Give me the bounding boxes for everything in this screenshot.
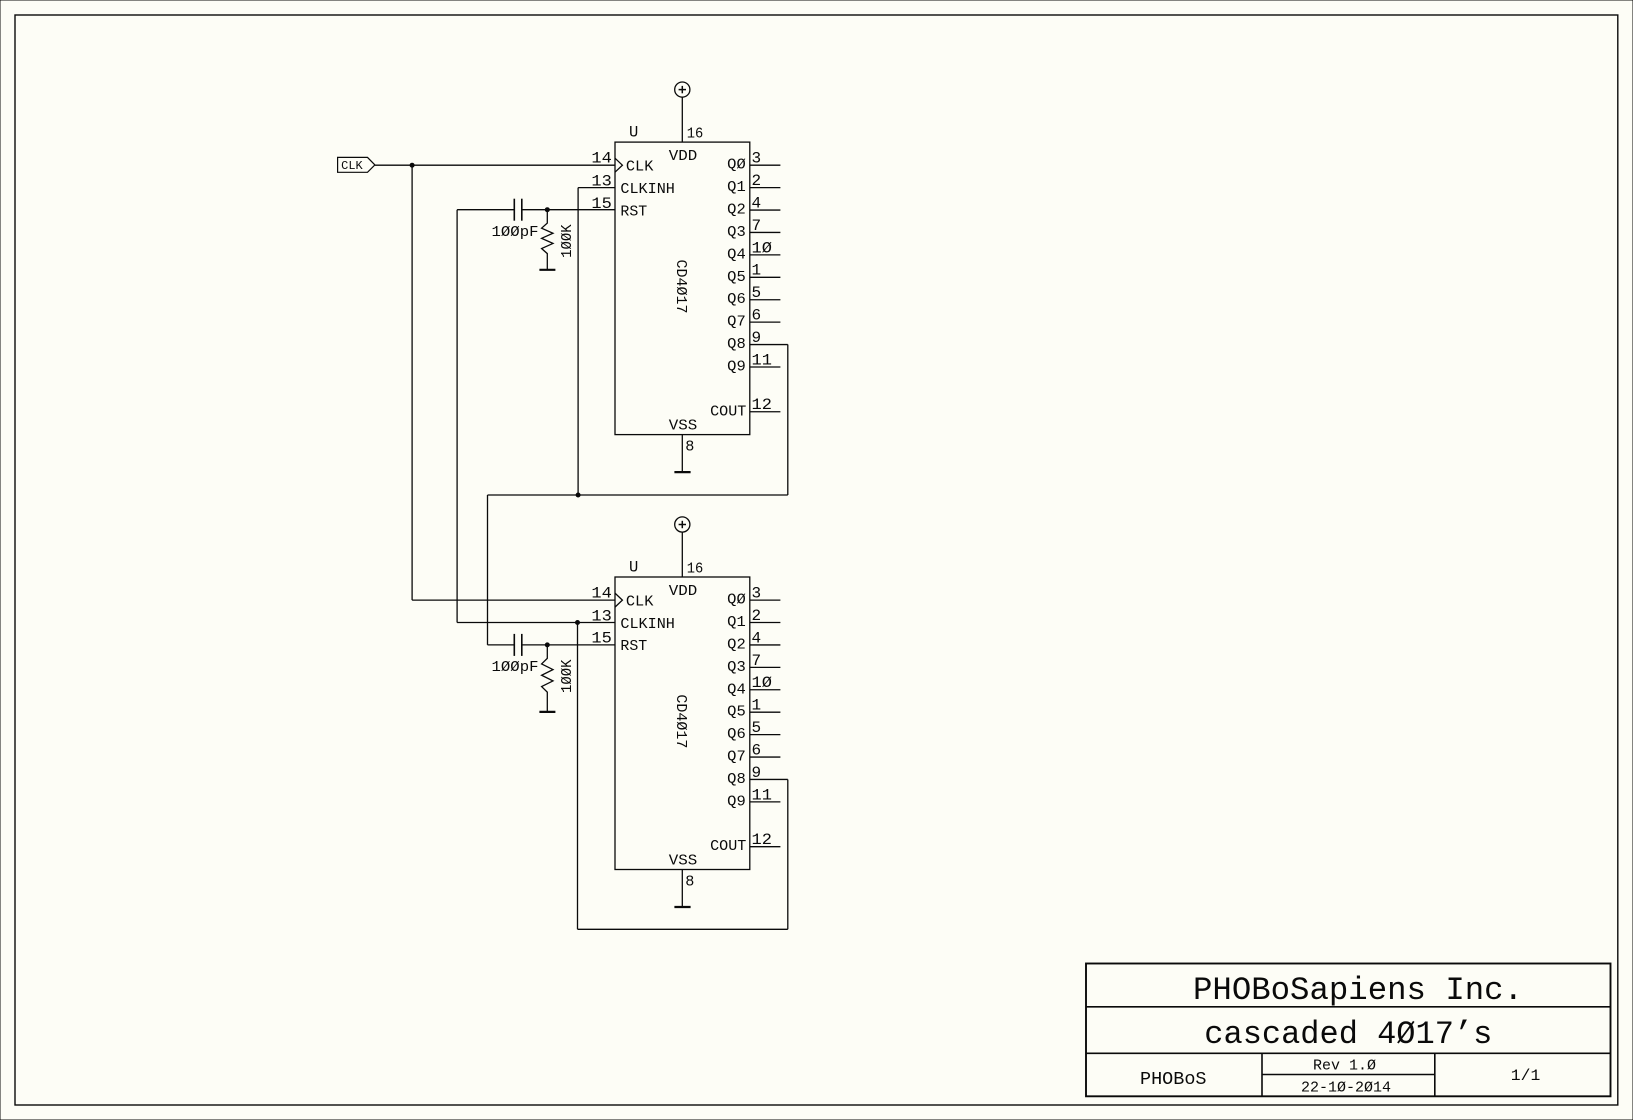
- svg-text:CLK: CLK: [626, 159, 654, 176]
- svg-text:8: 8: [685, 873, 694, 891]
- svg-text:Q6: Q6: [727, 726, 746, 743]
- svg-text:3: 3: [752, 585, 762, 603]
- svg-text:CLK: CLK: [626, 593, 654, 610]
- svg-text:9: 9: [752, 764, 762, 782]
- svg-text:QØ: QØ: [727, 157, 746, 174]
- svg-text:VSS: VSS: [669, 853, 698, 870]
- svg-text:5: 5: [752, 719, 762, 737]
- svg-text:9: 9: [752, 329, 762, 347]
- svg-text:12: 12: [752, 396, 772, 414]
- svg-text:Q7: Q7: [727, 314, 746, 331]
- svg-text:COUT: COUT: [710, 403, 746, 420]
- svg-text:1: 1: [752, 697, 762, 715]
- svg-text:1ØØpF: 1ØØpF: [492, 659, 539, 676]
- svg-text:1/1: 1/1: [1511, 1067, 1541, 1085]
- svg-text:VDD: VDD: [669, 148, 698, 165]
- svg-text:Q8: Q8: [727, 336, 746, 353]
- svg-text:Q1: Q1: [727, 179, 746, 196]
- svg-text:5: 5: [752, 284, 762, 302]
- svg-text:11: 11: [752, 351, 772, 369]
- svg-text:1ØØK: 1ØØK: [559, 224, 576, 258]
- svg-text:1Ø: 1Ø: [752, 674, 773, 692]
- svg-text:VSS: VSS: [669, 418, 698, 435]
- svg-text:6: 6: [752, 741, 762, 759]
- svg-text:7: 7: [752, 217, 762, 235]
- svg-text:Q8: Q8: [727, 771, 746, 788]
- svg-text:8: 8: [685, 438, 694, 456]
- svg-text:2: 2: [752, 607, 762, 625]
- svg-text:CLK: CLK: [341, 159, 363, 173]
- svg-text:22-1Ø-2Ø14: 22-1Ø-2Ø14: [1301, 1079, 1391, 1097]
- svg-text:CD4Ø17: CD4Ø17: [672, 260, 689, 314]
- svg-text:cascaded 4Ø17’s: cascaded 4Ø17’s: [1204, 1016, 1492, 1053]
- svg-text:1: 1: [752, 262, 762, 280]
- svg-text:COUT: COUT: [710, 838, 746, 855]
- svg-text:Q7: Q7: [727, 749, 746, 766]
- svg-text:1Ø: 1Ø: [752, 239, 773, 257]
- svg-text:VDD: VDD: [669, 583, 698, 600]
- svg-text:U: U: [629, 559, 638, 577]
- svg-text:QØ: QØ: [727, 592, 746, 609]
- svg-text:1ØØpF: 1ØØpF: [492, 224, 539, 241]
- svg-text:3: 3: [752, 150, 762, 168]
- svg-text:Q9: Q9: [727, 358, 746, 375]
- svg-text:Q3: Q3: [727, 659, 746, 676]
- svg-text:16: 16: [687, 125, 704, 143]
- svg-text:4: 4: [752, 629, 762, 647]
- svg-text:Q6: Q6: [727, 291, 746, 308]
- svg-text:7: 7: [752, 652, 762, 670]
- svg-text:1ØØK: 1ØØK: [559, 660, 576, 694]
- svg-text:Q5: Q5: [727, 704, 746, 721]
- svg-text:Q5: Q5: [727, 269, 746, 286]
- svg-text:12: 12: [752, 831, 772, 849]
- svg-text:Q2: Q2: [727, 636, 746, 653]
- svg-text:PHOBoS: PHOBoS: [1140, 1070, 1207, 1090]
- svg-text:Rev 1.Ø: Rev 1.Ø: [1313, 1057, 1376, 1075]
- svg-text:6: 6: [752, 307, 762, 325]
- svg-text:PHOBoSapiens Inc.: PHOBoSapiens Inc.: [1193, 972, 1523, 1009]
- svg-text:CLKINH: CLKINH: [620, 181, 675, 198]
- svg-text:11: 11: [752, 786, 772, 804]
- svg-text:Q4: Q4: [727, 681, 746, 698]
- svg-text:RST: RST: [620, 203, 647, 220]
- svg-text:U: U: [629, 124, 638, 142]
- svg-text:CLKINH: CLKINH: [620, 616, 675, 633]
- svg-text:Q1: Q1: [727, 614, 746, 631]
- svg-text:Q2: Q2: [727, 202, 746, 219]
- svg-text:Q9: Q9: [727, 793, 746, 810]
- svg-text:Q3: Q3: [727, 224, 746, 241]
- svg-text:4: 4: [752, 194, 762, 212]
- svg-text:2: 2: [752, 172, 762, 190]
- svg-text:Q4: Q4: [727, 246, 746, 263]
- svg-text:CD4Ø17: CD4Ø17: [672, 694, 689, 748]
- svg-text:RST: RST: [620, 638, 647, 655]
- svg-text:16: 16: [687, 559, 704, 577]
